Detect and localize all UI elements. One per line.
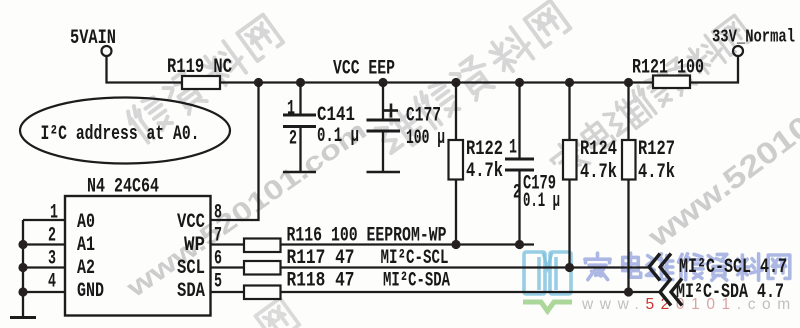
junction dots on VCC rail [254,78,263,87]
wire MI2C-SDA net [281,291,661,293]
wire R121 to 33V_Normal [690,56,738,83]
wire address bus vertical [22,220,24,317]
svg-text:4: 4 [48,271,56,294]
wire IC pin5 SDA [211,291,245,293]
ground bar under C141 [283,171,316,174]
svg-text:2: 2 [289,128,297,151]
watermark band: hanzi top-right [373,0,572,159]
svg-text:33V_Normal: 33V_Normal [712,28,795,48]
svg-text:R124: R124 [580,138,617,161]
resistor R118 [244,286,281,300]
svg-text:I²C address at A0.: I²C address at A0. [41,123,200,146]
resistor R122 [449,83,504,184]
svg-text:MI²C-SDA: MI²C-SDA [383,270,450,293]
capacitor C141 [283,83,359,172]
watermark band: www.520101.com middle-left [120,115,372,304]
svg-text:4.7k: 4.7k [638,161,675,184]
wire VCC rail to IC pin 8 [211,83,259,221]
svg-text:C141: C141 [317,104,355,127]
svg-text:1: 1 [509,137,517,160]
logo book icon [524,252,571,294]
watermark band: www.520101.com bottom-right [641,47,800,255]
wire VCC EEP rail [220,81,653,83]
annotation ellipse I2C address [20,98,230,164]
svg-text:SCL: SCL [177,257,205,280]
ground [10,316,36,319]
connector chevrons MI2C-SDA [660,279,671,306]
svg-text:SDA: SDA [177,280,205,303]
wire R124 to SCL line [568,180,570,268]
capacitor C179 [505,83,560,214]
resistor R127 [622,83,675,185]
svg-text:GND: GND [77,280,104,303]
svg-text:0.1 µ: 0.1 µ [523,190,560,213]
svg-text:MI²C-SCL 4.7: MI²C-SCL 4.7 [679,256,787,279]
svg-text:A0: A0 [77,211,95,234]
resistor R117 [244,261,281,275]
svg-text:VCC EEP: VCC EEP [333,58,395,81]
svg-text:R122: R122 [466,138,503,161]
svg-text:5: 5 [214,271,222,294]
svg-text:R118 47: R118 47 [287,270,355,293]
svg-text:A1: A1 [77,234,95,257]
svg-text:MI²C-SDA 4.7: MI²C-SDA 4.7 [676,281,784,304]
wire MI2C-SCL net [281,266,650,268]
svg-text:4.7k: 4.7k [466,160,503,183]
logo green ribbon [523,302,572,311]
wires IC left pins 1-4 [23,219,65,221]
logo hanzi text blue [585,253,790,280]
svg-text:WP: WP [184,234,205,257]
wire C179 to WP line [518,170,520,245]
watermark fragment bottom-left [256,298,300,328]
capacitor C177 (electrolytic) [367,83,446,172]
resistor R116 [244,239,281,253]
svg-text:C177: C177 [406,105,441,128]
wire R122 to WP line [455,180,457,245]
svg-text:1: 1 [287,98,295,121]
svg-text:R127: R127 [638,138,675,161]
watermark band: hanzi top-left [123,13,284,145]
svg-text:A2: A2 [77,257,95,280]
connector chevrons MI2C-SCL [649,254,660,281]
resistor R124 [563,83,617,185]
wire EEPROM-WP net [281,243,535,245]
wire R127 to SDA line [627,180,629,293]
watermark band: hanzi right-middle [546,13,753,181]
svg-text:4.7k: 4.7k [580,161,617,184]
wire from 5VAIN to R119 [107,56,183,83]
svg-text:8: 8 [214,202,222,225]
svg-text:0.1 µ: 0.1 µ [317,125,359,148]
svg-text:VCC: VCC [177,211,205,234]
wire IC pin6 SCL [211,266,245,268]
ground bar under C177 [367,171,401,174]
svg-text:100 µ: 100 µ [406,127,445,150]
wire IC pin7 WP [211,243,245,245]
